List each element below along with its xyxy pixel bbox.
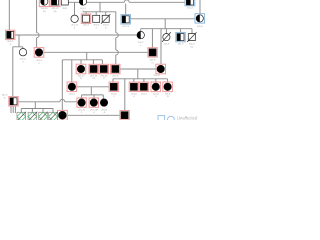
svg-text:201-8: 201-8	[131, 93, 137, 95]
wire long drop to bottom square	[12, 47, 14, 97]
svg-text:201-2: 201-2	[83, 25, 89, 27]
person IV-c black square red	[129, 82, 138, 98]
person bottom half square red left	[2, 94, 19, 106]
wire drop to circles sibship	[90, 87, 92, 95]
legend square	[158, 116, 165, 123]
person hatched square 2	[28, 112, 38, 122]
wire drop to II-1	[74, 2, 76, 15]
wire drop IV sq2	[133, 79, 135, 82]
wire drop c1	[81, 95, 83, 98]
person II-3 square	[93, 15, 100, 29]
wire drop IV sq1	[112, 79, 114, 82]
wire parent drop y52-60	[86, 52, 88, 60]
svg-text:201-8: 201-8	[2, 94, 8, 96]
svg-text:201-5: 201-5	[69, 93, 75, 95]
wire drop to half circle	[140, 29, 142, 32]
wire sibship y60	[62, 59, 102, 61]
svg-text:201-N: 201-N	[154, 75, 160, 77]
wire sibship y95	[82, 94, 104, 96]
wire drop III square2	[92, 60, 94, 65]
svg-text:201-2: 201-2	[138, 42, 144, 44]
wire drop III square3	[101, 60, 103, 65]
wire bottom couple line	[67, 114, 120, 116]
person black square y52 red	[148, 48, 157, 65]
person V-3 black circle	[100, 99, 107, 114]
svg-text:201-4: 201-4	[141, 93, 147, 95]
svg-text:201-16: 201-16	[90, 75, 98, 77]
svg-text:201-8: 201-8	[103, 25, 109, 27]
person II-4 slashed square	[101, 14, 110, 29]
person bottom black circle red	[58, 110, 68, 120]
svg-text:201-22: 201-22	[100, 75, 108, 77]
svg-text:201-2: 201-2	[80, 8, 86, 10]
svg-text:201-8: 201-8	[197, 26, 203, 28]
wire drop III circle	[80, 60, 82, 64]
svg-text:201-2: 201-2	[7, 41, 13, 43]
wire vertical to black circle with hop	[36, 0, 38, 48]
svg-text:201-12: 201-12	[52, 8, 60, 10]
person IV-b black square red	[109, 82, 118, 98]
wire sibship y79	[113, 78, 168, 80]
svg-text:201-10: 201-10	[122, 26, 130, 28]
svg-text:201-12: 201-12	[71, 25, 79, 27]
person III-d black square red	[111, 64, 120, 77]
svg-text:201-1M: 201-1M	[90, 109, 98, 111]
legend circle	[168, 116, 175, 123]
wire hop on gen I couple line	[124, 0, 129, 2]
svg-text:201-8: 201-8	[93, 25, 99, 27]
svg-text:201-8: 201-8	[20, 59, 26, 61]
person III-c black square red	[99, 64, 108, 80]
wire couple line gen I	[68, 1, 185, 3]
wire drop c2	[93, 95, 95, 98]
person II-1 circle	[71, 15, 79, 29]
person II-6 blue half circle right	[195, 14, 205, 28]
wire mini sibship y47	[13, 47, 23, 49]
wire hatch sibship line	[21, 108, 53, 110]
person III-b black square red	[89, 64, 98, 80]
person IV-d black square red	[139, 82, 148, 95]
svg-text:201-N: 201-N	[101, 109, 107, 111]
wire couple line y87	[77, 86, 109, 88]
person III-a black circle red	[76, 64, 86, 80]
svg-text:201-8: 201-8	[111, 93, 117, 95]
svg-text:(5): (5)	[43, 11, 46, 13]
wire drop to hatch sibship	[34, 102, 36, 109]
svg-text:(3): (3)	[82, 11, 85, 13]
person III half circle center	[137, 31, 144, 47]
wire drop to gen II sibship	[99, 2, 101, 12]
wire drop IV c4	[155, 79, 157, 82]
svg-text:201-N: 201-N	[112, 76, 118, 78]
wire drop c3	[102, 95, 104, 99]
wire drop IV c5	[167, 79, 169, 82]
person white circle y52	[19, 49, 26, 64]
wire couple line y102 with hop	[18, 101, 76, 103]
svg-text:Unaffected: Unaffected	[177, 116, 198, 120]
person IV-e black circle red	[151, 82, 161, 98]
wire couple line y69	[120, 68, 156, 70]
svg-text:201-6: 201-6	[189, 44, 195, 46]
person IV-a black circle red	[67, 82, 77, 95]
svg-text:201-10: 201-10	[41, 8, 49, 10]
person III slashed circle right	[162, 32, 171, 45]
wire long couple line y52	[44, 51, 148, 53]
person III slashed square right	[187, 32, 196, 48]
wire drop slashed circle	[165, 29, 167, 34]
person bottom black square red	[120, 111, 129, 120]
person III-e black circle red right	[154, 64, 166, 77]
person hatched square 4	[48, 112, 58, 122]
svg-text:(x): (x)	[191, 47, 194, 49]
person III blue half square right	[176, 32, 185, 45]
wire drop from y35 couple	[18, 35, 20, 47]
person III-0 half square red left	[6, 30, 15, 46]
person black circle y52 red	[34, 48, 44, 65]
person I-3 white square	[61, 0, 68, 10]
wire long drop to bottom right square	[124, 79, 126, 111]
svg-text:201-4: 201-4	[178, 44, 184, 46]
wire drop IV sq3	[143, 79, 145, 82]
wire drop II-4	[105, 12, 107, 15]
person IV-f black circle red	[163, 82, 173, 98]
person I-2 dark square red	[50, 0, 60, 13]
wire drop to blue circle II	[199, 0, 201, 14]
wire mini verticals under bottom square	[11, 106, 15, 113]
svg-text:201-10: 201-10	[78, 109, 86, 111]
wire drop to blue square II	[125, 4, 127, 15]
person hatched square 3	[38, 112, 48, 122]
wire long drop to III-4 with hops	[115, 12, 117, 65]
wire right sibship line	[141, 28, 192, 30]
svg-text:201-8: 201-8	[153, 93, 159, 95]
wire hatch drops	[21, 109, 53, 113]
wire drop blue half square	[180, 29, 182, 33]
person II-5 blue half square	[121, 15, 130, 29]
svg-text:201-8: 201-8	[165, 93, 171, 95]
person V-1 black circle red	[77, 98, 86, 114]
svg-text:201-5: 201-5	[36, 60, 42, 62]
wire drop slashed square	[191, 29, 193, 34]
svg-text:201-4: 201-4	[187, 8, 193, 10]
person I-5 blue square top right	[185, 0, 195, 10]
svg-text:201-8: 201-8	[164, 44, 170, 46]
person II-2 square red box	[81, 14, 90, 27]
svg-text:(8): (8)	[54, 11, 57, 13]
wire sibship line gen II	[83, 11, 116, 13]
person I-4 half circle	[79, 0, 86, 13]
person hatched square 1	[17, 112, 27, 122]
wire long drop to bottom circle	[61, 60, 63, 111]
wire drop to right sibship	[164, 19, 166, 29]
wire drop II-3	[95, 12, 97, 15]
wire long couple line y35	[15, 34, 137, 36]
svg-text:2011: 2011	[62, 8, 67, 10]
wire drop from I left	[8, 0, 10, 30]
wire long drop to circle 69	[160, 29, 162, 64]
svg-text:201-8: 201-8	[150, 59, 156, 61]
wire drop to IV sibship	[137, 69, 139, 79]
svg-text:201-10: 201-10	[78, 75, 86, 77]
wire drop II-2	[85, 12, 87, 15]
person I-1 half circle red	[39, 0, 49, 13]
wire long drop to circle IV	[71, 60, 73, 82]
wire long drop to black square 52	[151, 29, 153, 48]
wire couple line blue pair	[130, 18, 195, 20]
person V-2 black circle red	[89, 98, 98, 114]
